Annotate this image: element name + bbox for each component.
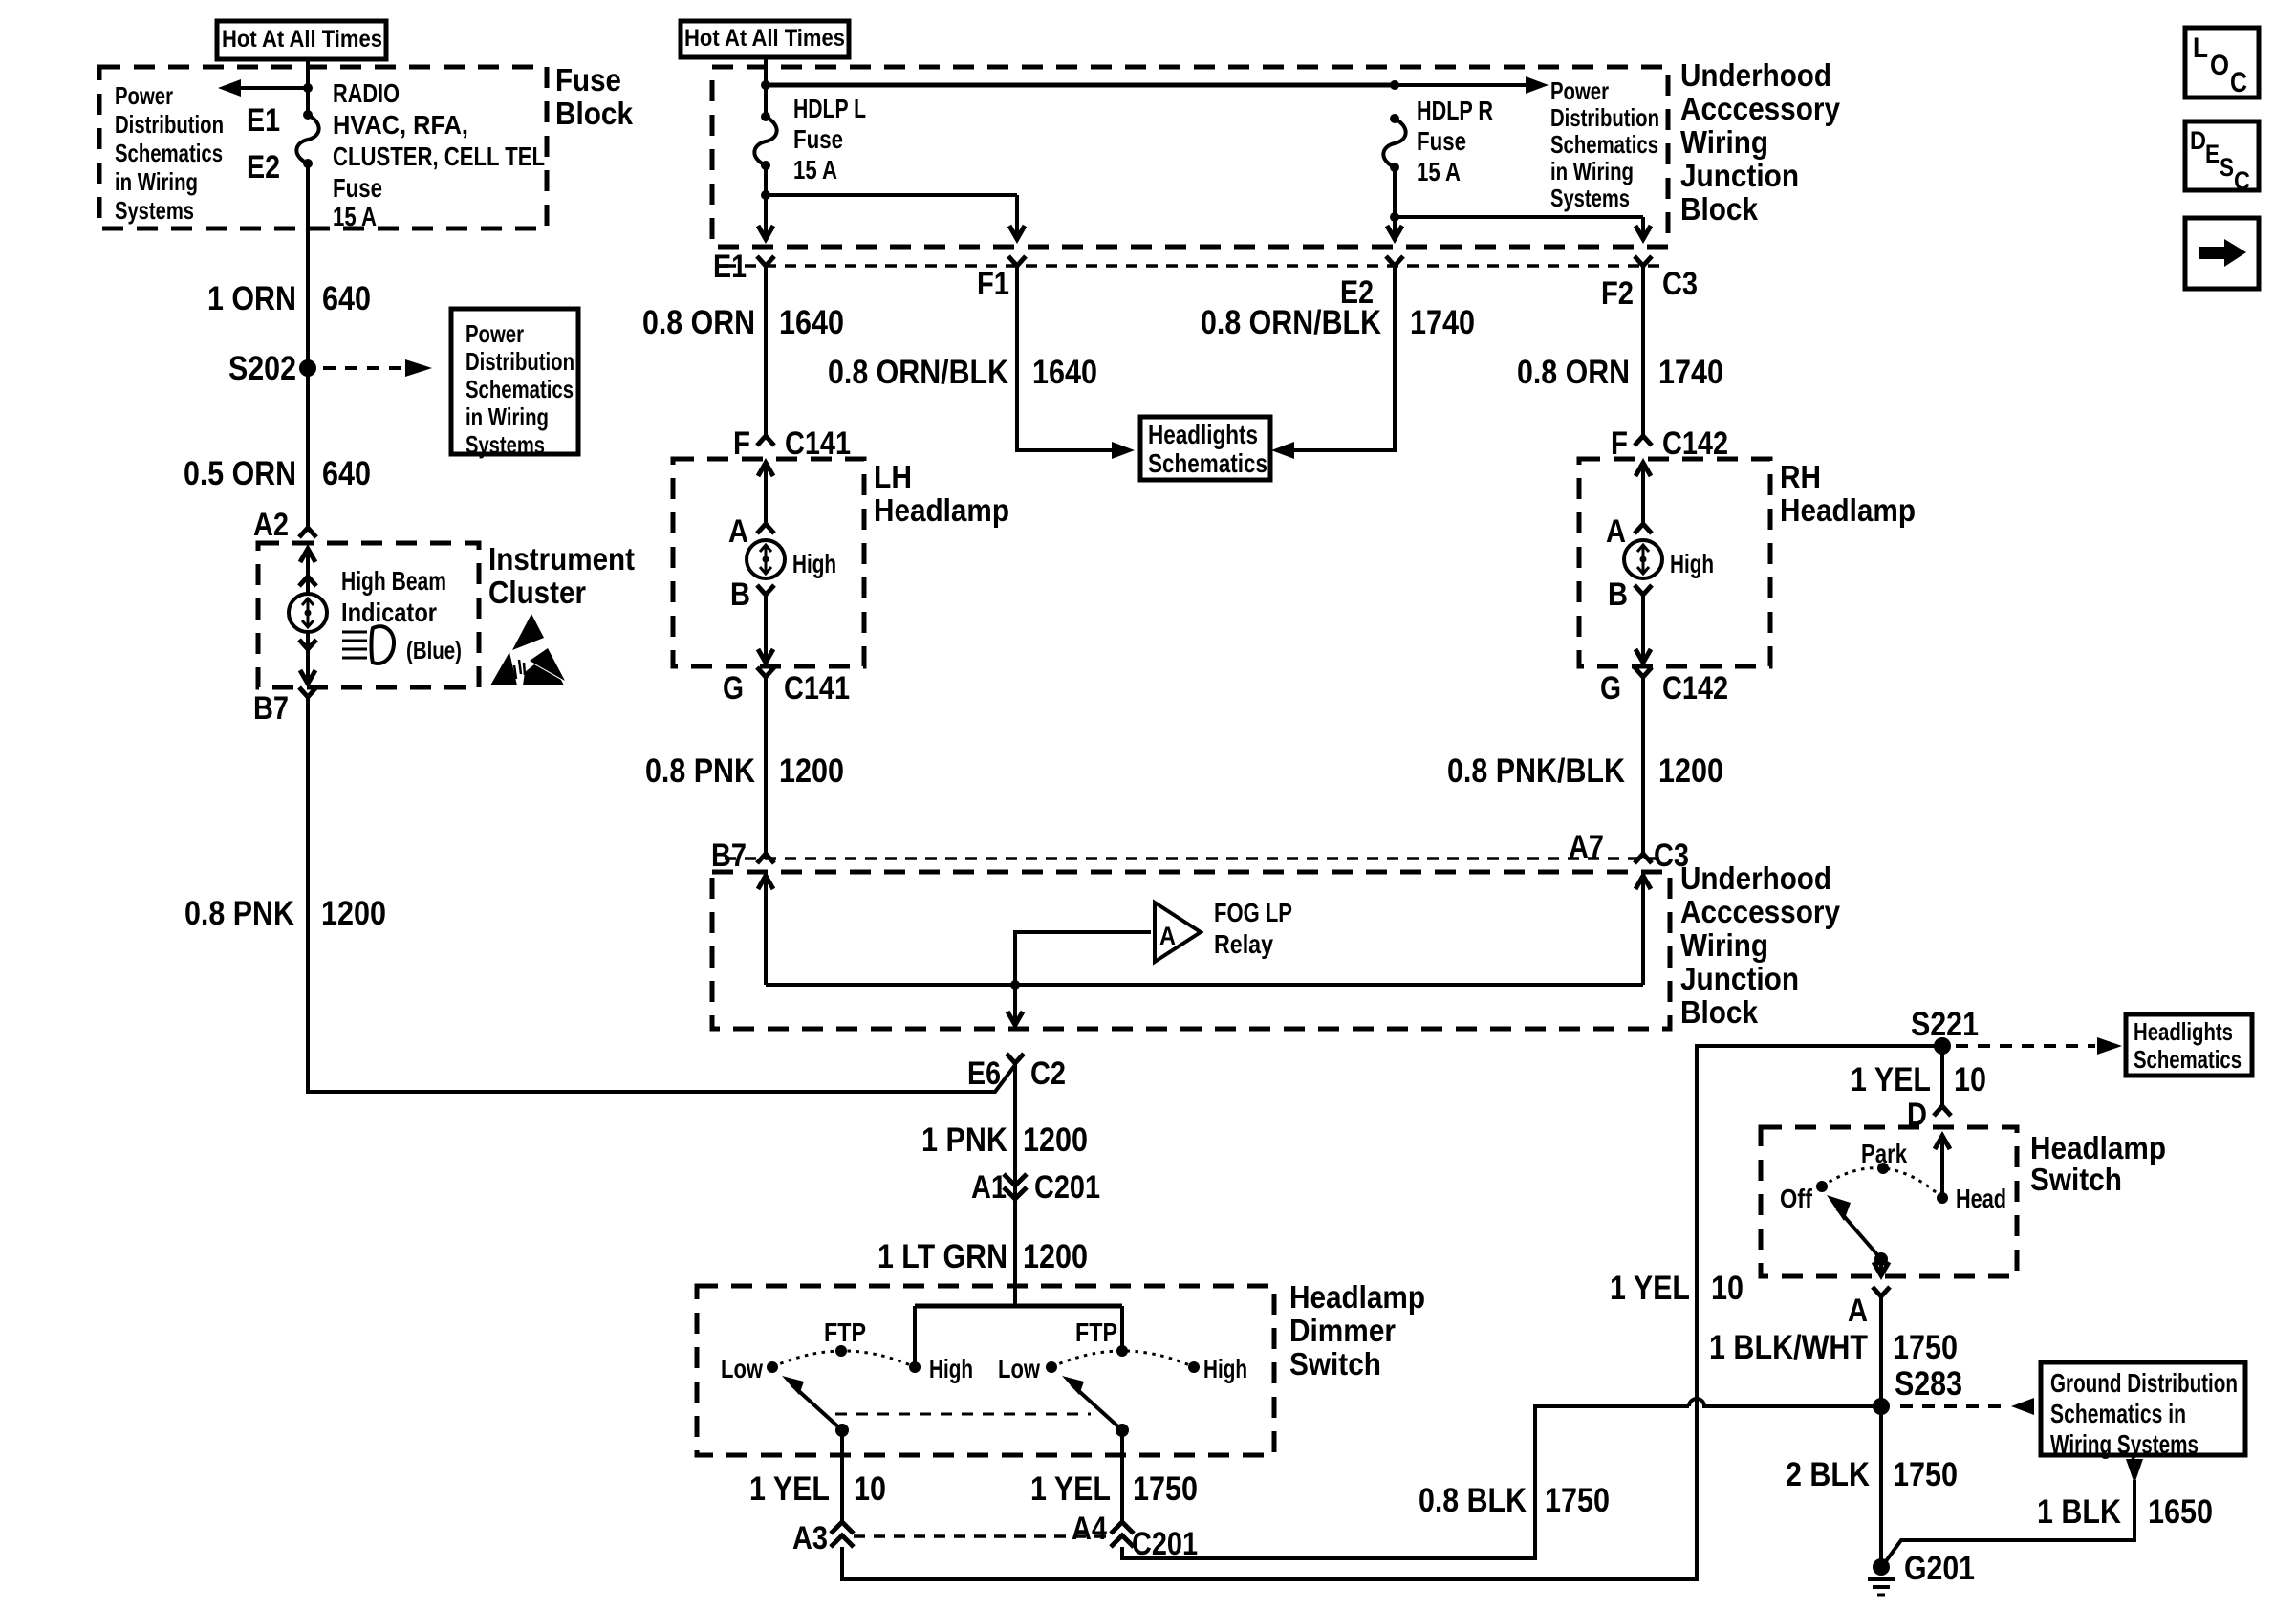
text FOG LP Relay [1214,898,1292,959]
svg-text:10: 10 [1954,1061,1986,1099]
svg-text:B7: B7 [711,838,747,874]
wire: internal bottom bus [766,983,1643,987]
wire: internal right with up arrow [1635,876,1651,985]
svg-text:15 A: 15 A [793,155,837,185]
svg-text:Schematics: Schematics [115,139,223,167]
wire: hot box 2 down [764,57,768,117]
svg-text:Distribution: Distribution [1550,103,1659,132]
svg-text:1 BLK: 1 BLK [2037,1493,2121,1531]
connector F C142 [1611,425,1728,462]
label LH Headlamp [874,459,1009,528]
svg-text:Wiring: Wiring [1680,927,1768,963]
label: 1 LT GRN 1200 [877,1238,1088,1275]
svg-text:S: S [2220,153,2234,182]
lamp: high beam indicator [289,594,327,632]
fuse: RADIO 15A (E1-E2) [296,110,318,168]
wire: fuse L tap [764,165,768,239]
dotted arc right (Low-FTP-High) [1051,1351,1194,1367]
svg-text:S202: S202 [228,350,296,387]
node: fuse L junction [761,190,770,200]
dashed box: Underhood Accessory Wiring Junction Block (2) [712,872,1670,1029]
connector A4 C201 [1072,1511,1198,1562]
dashed mech link [835,1413,1091,1416]
connector D [1907,1097,1951,1133]
svg-text:Relay: Relay [1214,929,1273,959]
svg-text:Power: Power [115,81,173,110]
box: Headlights Schematics [1140,417,1270,480]
connector E1 [713,249,774,285]
svg-text:0.8 ORN/BLK: 0.8 ORN/BLK [1201,304,1381,341]
svg-text:1640: 1640 [779,304,844,341]
svg-text:Instrument: Instrument [488,541,635,577]
svg-text:15 A: 15 A [1417,157,1461,186]
dotted arc Off-Park-Head [1822,1168,1942,1198]
svg-text:1200: 1200 [779,752,844,790]
dashed box: Fuse Block [99,67,547,228]
wire: 1 PNK 1200 [1013,1063,1017,1306]
text: Power Distribution Schematics in Wiring Systems (fuse block) [115,81,224,225]
svg-text:E1: E1 [247,102,280,139]
svg-text:Headlamp: Headlamp [874,492,1009,528]
svg-text:1200: 1200 [1023,1121,1088,1159]
dashed connector row 1 [725,264,1665,268]
svg-text:Distribution: Distribution [115,110,224,139]
svg-text:1200: 1200 [1658,752,1723,790]
svg-text:in Wiring: in Wiring [466,402,549,431]
label: 2 BLK 1750 [1786,1456,1958,1493]
svg-text:L: L [2193,33,2208,64]
svg-text:S283: S283 [1895,1365,1962,1403]
svg-text:Block: Block [1680,191,1759,227]
label Headlamp Dimmer Switch [1289,1279,1425,1382]
svg-text:Fuse: Fuse [555,62,621,98]
svg-text:1 PNK: 1 PNK [921,1121,1007,1159]
ESD symbol [490,614,565,685]
connector G C141 [723,667,850,707]
label: 1 BLK 1650 [2037,1493,2213,1531]
svg-text:E1: E1 [713,249,747,285]
wire: G C141 down [764,677,768,854]
svg-text:1200: 1200 [1023,1238,1088,1275]
svg-text:Schematics: Schematics [1148,448,1267,478]
svg-text:1750: 1750 [1545,1482,1610,1519]
wire+arrow to LH bottom [758,595,773,663]
svg-text:Low: Low [998,1354,1040,1383]
svg-text:1650: 1650 [2148,1493,2213,1531]
svg-text:C142: C142 [1662,425,1728,462]
svg-text:Junction: Junction [1680,961,1799,996]
text: Power Distribution Schematics in Wiring Systems (right) [1550,76,1659,212]
connector E2 [1340,256,1403,311]
svg-text:A: A [1848,1293,1868,1329]
triangle: ground box exit [2126,1459,2143,1484]
svg-text:1740: 1740 [1658,354,1723,391]
wire: E6 exit with down arrow [1007,985,1023,1025]
wire+arrow to cluster bottom [300,632,315,684]
svg-text:Park: Park [1861,1139,1907,1168]
svg-text:A3: A3 [792,1520,828,1556]
svg-text:Fuse: Fuse [333,173,382,203]
wire: F1 to headlights schematics [1017,266,1135,459]
svg-text:0.8 ORN: 0.8 ORN [1517,354,1630,391]
svg-text:FTP: FTP [824,1317,866,1347]
icon box: LOC [2185,28,2259,98]
svg-text:1 YEL: 1 YEL [1851,1061,1931,1099]
connector A2 [253,507,316,543]
svg-text:High: High [1670,549,1714,578]
label: 0.5 ORN 640 [184,455,371,492]
svg-text:G: G [723,670,744,707]
svg-text:1 LT GRN: 1 LT GRN [877,1238,1007,1275]
svg-text:Head: Head [1956,1184,2006,1213]
svg-text:Low: Low [721,1354,763,1383]
label: 1 YEL 10 (riser) [1610,1270,1744,1307]
label RH Headlamp [1780,459,1916,528]
svg-text:Schematics: Schematics [1550,130,1658,159]
connector B (LH) [730,577,774,613]
connector B7 (junction block) [711,838,774,874]
lever left [782,1376,849,1437]
text: RADIO HVAC RFA CLUSTER CELL TEL Fuse 15 A [333,78,545,231]
svg-text:C141: C141 [785,425,851,462]
svg-text:HDLP L: HDLP L [793,94,866,123]
svg-text:Power: Power [466,319,524,348]
svg-text:G: G [1600,670,1621,707]
svg-text:Headlamp: Headlamp [1780,492,1916,528]
label Underhood Acccessory Wiring Junction Block (top) [1680,57,1841,227]
svg-text:Switch: Switch [2030,1162,2122,1197]
svg-text:0.8 ORN/BLK: 0.8 ORN/BLK [828,354,1008,391]
svg-text:HDLP R: HDLP R [1417,96,1493,125]
arrow: E2 exit [1387,226,1402,239]
label: 0.8 PNK 1200 (LH) [645,752,844,790]
label: 1 YEL 1750 (A4) [1030,1470,1198,1508]
node: bus left [761,80,770,90]
svg-text:Headlamp: Headlamp [2030,1130,2166,1165]
dashed connector row C201 [854,1534,1109,1538]
wire: F2 to C142 [1641,266,1645,436]
splice S283 [1873,1365,1962,1415]
svg-text:High: High [792,549,836,578]
svg-text:RADIO: RADIO [333,78,400,108]
connector A3 [792,1520,854,1556]
svg-text:Underhood: Underhood [1680,860,1831,896]
svg-text:Fuse: Fuse [793,124,843,154]
lever right [1062,1376,1129,1437]
svg-text:1750: 1750 [1893,1456,1958,1493]
label: 1 ORN 640 [207,280,371,317]
node: E6 junction [1010,980,1020,990]
connector E6 C2 [967,1054,1066,1092]
svg-text:Systems: Systems [115,196,194,225]
wire: E1 to C141 [764,266,768,436]
wire: G C142 down [1641,677,1645,854]
node: fuse R junction [1390,212,1399,222]
svg-text:E2: E2 [247,149,280,185]
connector B (RH) [1608,577,1652,613]
box: Hot At All Times (left) [217,21,386,59]
svg-text:High Beam: High Beam [341,566,446,596]
svg-text:1200: 1200 [321,895,386,932]
dashed arrow: S221 to headlights schematics [1956,1037,2122,1055]
dashed connector row 2 [725,857,1665,860]
wire: A4 to S283 [1122,1406,1689,1558]
svg-text:F: F [733,425,750,462]
wire+arrow into LH [758,463,773,522]
dashed box: Headlamp Dimmer Switch [697,1286,1274,1455]
wire: 1 ORN 640 [306,163,310,528]
label: 1 YEL 10 (A3) [749,1470,886,1508]
text: High Beam Indicator [341,566,446,627]
label Instrument Cluster [488,541,635,610]
svg-text:Acccessory: Acccessory [1680,894,1841,929]
wire: 0.8 PNK 1200 down-left [308,697,1015,1092]
svg-text:Power: Power [1550,76,1609,105]
svg-text:A7: A7 [1569,829,1604,865]
svg-text:High: High [929,1354,973,1383]
svg-text:A2: A2 [253,507,289,543]
svg-text:C141: C141 [784,670,850,707]
svg-text:15 A: 15 A [333,202,377,231]
svg-text:C: C [2230,67,2247,98]
svg-text:Systems: Systems [1550,184,1630,212]
splice S202 [228,350,316,387]
svg-text:1 ORN: 1 ORN [207,280,296,317]
contact dots right [1046,1345,1200,1373]
text: HDLP R Fuse 15 A [1417,96,1493,186]
label: 0.8 BLK 1750 [1419,1482,1610,1519]
box: Headlights Schematics (right) [2126,1014,2252,1076]
wire: A3 leg [840,1430,844,1522]
wire: A4 leg [1120,1430,1124,1522]
dashed box: Headlamp Switch [1761,1127,2017,1276]
box: Hot At All Times (middle) [681,21,849,57]
svg-text:Junction: Junction [1680,158,1799,193]
svg-text:1740: 1740 [1410,304,1475,341]
ground G201 [1868,1550,1975,1595]
wire: S221 down [1940,1046,1944,1106]
icon box: DESC [2185,121,2259,195]
svg-text:Distribution: Distribution [466,347,574,376]
svg-text:Schematics: Schematics [466,375,574,403]
connector A (switch) [1848,1287,1890,1329]
dotted arc left (Low-FTP-High) [772,1351,915,1367]
svg-text:1 YEL: 1 YEL [749,1470,830,1508]
svg-text:B: B [1608,577,1628,613]
svg-text:A: A [728,513,748,550]
box: Ground Distribution Schematics in Wiring Systems [2041,1362,2245,1459]
svg-text:1750: 1750 [1893,1329,1958,1366]
wire: fuse R tap [1393,167,1397,239]
svg-text:F1: F1 [977,266,1009,302]
svg-text:C2: C2 [1030,1055,1066,1092]
label: 0.8 PNK/BLK 1200 [1447,752,1723,790]
svg-text:C201: C201 [1034,1169,1100,1206]
box: Power Distribution Schematics in Wiring Systems [451,309,578,459]
label Fuse Block [555,62,634,131]
svg-text:E: E [2205,140,2220,168]
wire+arrow into cluster [300,549,315,594]
svg-text:A1: A1 [971,1169,1007,1206]
wire: E2 to headlights schematics [1271,266,1395,459]
contact dots left [767,1345,921,1373]
connector F C141 [733,425,851,462]
svg-text:G201: G201 [1904,1550,1975,1587]
svg-text:C: C [2234,166,2250,195]
wire+arrow head contact [1935,1136,1950,1198]
dashed box: Instrument Cluster [258,543,479,687]
dashed box: RH Headlamp [1579,459,1770,666]
label: 0.8 ORN 1740 [1517,354,1723,391]
wire: branch to F1 [766,195,1025,239]
svg-text:Block: Block [1680,994,1759,1030]
svg-text:640: 640 [322,280,371,317]
svg-text:A: A [1606,513,1626,550]
icon: headlamp beam symbol [342,626,394,664]
svg-text:HVAC, RFA,: HVAC, RFA, [333,110,468,140]
svg-text:0.8 BLK: 0.8 BLK [1419,1482,1527,1519]
svg-text:Dimmer: Dimmer [1289,1313,1396,1348]
wire: 1 BLK 1650 [1883,1480,2134,1565]
svg-text:C3: C3 [1662,266,1698,302]
svg-text:Schematics in: Schematics in [2050,1399,2186,1428]
node: bus right [1390,80,1399,90]
splice S221 [1911,1006,1979,1055]
svg-text:Wiring: Wiring [1680,124,1768,160]
connector F2 C3 [1601,256,1698,312]
wire: internal left with up arrow [758,876,773,985]
svg-text:Fuse: Fuse [1417,126,1466,156]
svg-text:C142: C142 [1662,670,1728,707]
svg-text:1750: 1750 [1133,1470,1198,1508]
contact dots: Off Park Head [1816,1163,1948,1204]
svg-text:Wiring Systems: Wiring Systems [2050,1429,2199,1459]
dashed arrow: S202 to power distribution box [323,359,432,377]
label: 0.8 ORN/BLK 1740 [1201,304,1475,341]
svg-text:Schematics: Schematics [2134,1045,2242,1074]
svg-text:FTP: FTP [1075,1317,1117,1347]
svg-text:1 YEL: 1 YEL [1610,1270,1690,1307]
svg-text:O: O [2210,50,2229,81]
lamp: RH high beam [1624,540,1662,578]
svg-text:A4: A4 [1072,1511,1107,1547]
svg-text:S221: S221 [1911,1006,1979,1043]
connector A (RH) [1606,513,1652,550]
svg-text:Headlights: Headlights [2134,1017,2233,1046]
wire: bus [766,83,1395,88]
svg-text:0.8 PNK: 0.8 PNK [645,752,755,790]
svg-text:in Wiring: in Wiring [115,167,198,196]
svg-text:640: 640 [322,455,371,492]
svg-text:0.8 PNK: 0.8 PNK [184,895,294,932]
wire: hop over riser then to S283 [1689,1399,1881,1406]
wire: branch to F2 [1395,217,1651,239]
svg-text:FOG LP: FOG LP [1214,898,1292,927]
svg-text:Underhood: Underhood [1680,57,1831,93]
svg-text:E6: E6 [967,1055,1001,1092]
lamp: LH high beam [747,540,785,578]
svg-text:B: B [730,577,750,613]
svg-text:Acccessory: Acccessory [1680,91,1841,126]
dashed box: Underhood Accessory Wiring Junction Block (top) [712,67,1668,247]
wire+arrow into RH [1635,463,1651,522]
arrow: E1 exit [758,226,773,239]
svg-text:10: 10 [854,1470,886,1508]
svg-text:RH: RH [1780,459,1821,494]
svg-text:0.8 ORN: 0.8 ORN [642,304,755,341]
wire: to fog lp relay [1015,932,1151,985]
wire: arrow to power distribution (left) [218,79,308,97]
svg-text:Hot At All Times: Hot At All Times [684,25,845,52]
label: 1 PNK 1200 [921,1121,1088,1159]
svg-text:1 YEL: 1 YEL [1030,1470,1111,1508]
svg-text:0.5 ORN: 0.5 ORN [184,455,296,492]
svg-text:D: D [2190,126,2206,155]
svg-text:Headlamp: Headlamp [1289,1279,1425,1315]
fuse: HDLP L 15A [754,112,776,170]
wire: hot box to fuse [306,59,310,115]
text: HDLP L Fuse 15 A [793,94,866,185]
icon box: arrow [2185,218,2259,289]
label Underhood Acccessory Wiring Junction Block (2) [1680,860,1841,1030]
svg-text:Systems: Systems [466,430,545,459]
label Headlamp Switch [2030,1130,2166,1197]
svg-text:1 BLK/WHT: 1 BLK/WHT [1709,1329,1868,1366]
fuse: HDLP R 15A [1383,114,1405,172]
label: 0.8 ORN/BLK 1640 [828,354,1097,391]
svg-text:A: A [1159,922,1176,950]
svg-text:Hot At All Times: Hot At All Times [222,26,382,53]
svg-text:Block: Block [555,96,634,131]
label: 1 BLK/WHT 1750 [1709,1329,1958,1366]
svg-text:High: High [1203,1354,1247,1383]
connector A1 C201 [971,1169,1100,1206]
svg-text:Indicator: Indicator [341,598,437,627]
svg-text:2 BLK: 2 BLK [1786,1456,1870,1493]
arrow: to power distribution (right) [1395,76,1549,94]
node: radio feed junction [303,83,313,93]
svg-text:Ground Distribution: Ground Distribution [2050,1368,2238,1398]
connector F1 [977,256,1026,302]
wire+arrow: lever to box edge [1874,1259,1889,1275]
svg-text:0.8 PNK/BLK: 0.8 PNK/BLK [1447,752,1625,790]
label: 0.8 PNK 1200 [184,895,386,932]
svg-text:F: F [1611,425,1628,462]
svg-text:CLUSTER, CELL TEL: CLUSTER, CELL TEL [333,141,545,171]
svg-text:LH: LH [874,459,912,494]
label: 0.8 ORN 1640 [642,304,844,341]
connector G C142 [1600,667,1728,707]
wire+arrow to RH bottom [1635,595,1651,663]
wire: dimmer feed bar [915,1306,1122,1367]
connector chevron above indicator [299,577,316,586]
wire: A to S283 [1879,1296,1883,1567]
svg-text:in Wiring: in Wiring [1550,157,1634,185]
wire: A3 to S221 riser [842,1046,1942,1579]
relay: FOG LP (triangle A) [1155,903,1201,962]
connector A7 C3 [1569,829,1689,874]
svg-text:Switch: Switch [1289,1346,1381,1382]
dashed arrow: S283 to ground distribution [1900,1398,2034,1415]
svg-text:F2: F2 [1601,275,1634,312]
svg-text:1640: 1640 [1032,354,1097,391]
connector chevron below indicator [299,640,316,649]
svg-text:Cluster: Cluster [488,575,586,610]
label: 1 YEL 10 (S221) [1851,1061,1986,1099]
connector A (LH) [728,513,774,550]
connector B7 [253,687,316,727]
svg-text:(Blue): (Blue) [406,636,462,664]
